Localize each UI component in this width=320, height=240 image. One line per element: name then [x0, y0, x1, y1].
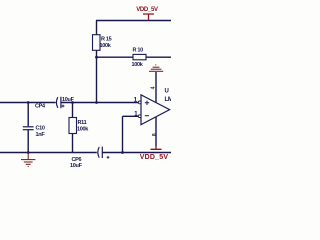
junction node CP4/C10	[27, 101, 30, 104]
junction node R15 bottom	[95, 101, 98, 104]
power VDD_5V top	[136, 7, 158, 21]
ground bottom left	[21, 153, 35, 166]
junction node feedback bottom	[121, 151, 124, 154]
capacitor CP6	[98, 147, 103, 158]
ground top right	[149, 65, 163, 71]
wire R11 branch	[72, 103, 74, 153]
wire bottom horizontal left of CP6	[0, 152, 97, 154]
wire op-amp bottom power pin	[155, 117, 157, 147]
capacitor CP4	[56, 97, 61, 108]
capacitor C10	[23, 127, 34, 130]
svg-text:100k: 100k	[100, 43, 112, 49]
wire vertical R15 branch	[96, 21, 98, 103]
junction node R11 top	[71, 101, 74, 104]
wire inverting input	[123, 115, 139, 117]
wire feedback vertical	[122, 116, 124, 152]
svg-text:C10: C10	[36, 126, 45, 132]
pin 3 circle noninverting	[138, 101, 141, 104]
resistor R11	[69, 118, 77, 134]
power VDD_5V bottom	[140, 147, 169, 161]
wire C10 branch	[27, 103, 29, 153]
svg-text:100k: 100k	[132, 62, 144, 68]
svg-text:100k: 100k	[77, 127, 89, 133]
svg-text:LM: LM	[165, 97, 172, 103]
svg-text:VDD_5V: VDD_5V	[136, 7, 158, 13]
pin 2 circle inverting	[138, 115, 141, 118]
svg-text:VDD_5V: VDD_5V	[140, 154, 169, 161]
svg-text:10uF: 10uF	[70, 163, 83, 169]
junction node C10 ground	[27, 151, 30, 154]
junction node R10 left	[95, 56, 98, 59]
wire middle horizontal right of CP4	[61, 102, 138, 104]
svg-text:R 10: R 10	[133, 48, 144, 54]
resistor R15	[93, 35, 101, 51]
svg-text:U: U	[165, 89, 169, 95]
wire op-amp top power pin	[155, 72, 157, 103]
svg-text:R 15: R 15	[101, 36, 112, 42]
svg-text:CP4: CP4	[35, 104, 46, 110]
wire bottom horizontal right of CP6	[102, 152, 171, 154]
resistor R10	[133, 54, 146, 59]
wire R10 row	[97, 56, 172, 58]
wire top horizontal	[96, 20, 171, 22]
op-amp U1	[141, 95, 170, 125]
svg-text:R11: R11	[78, 120, 87, 126]
wire middle horizontal left of CP4	[0, 102, 56, 104]
svg-text:1nF: 1nF	[36, 132, 46, 138]
